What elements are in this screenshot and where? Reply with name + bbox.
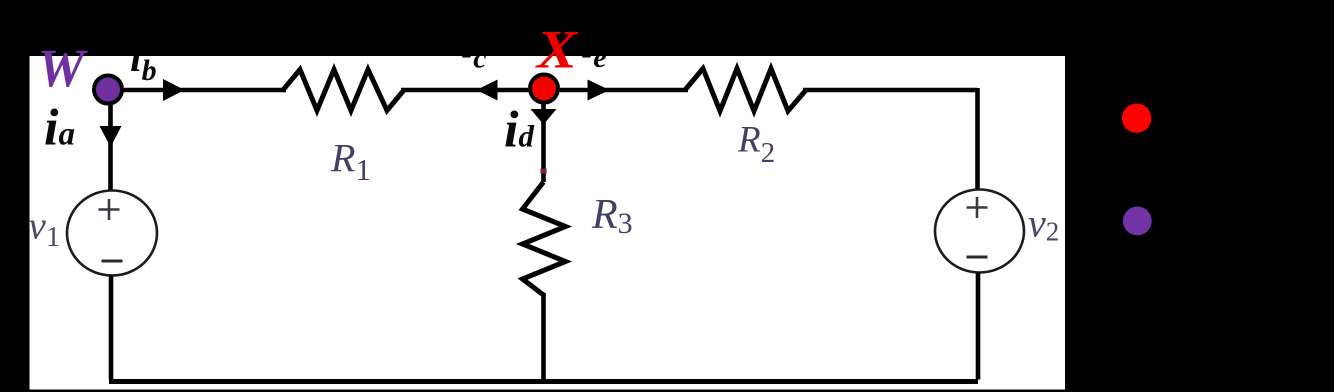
arrow i_c (left) bbox=[477, 80, 498, 101]
wire: v2 bottom to bottom-right corner bbox=[976, 273, 981, 380]
wire: top-right corner down to v2 bbox=[975, 88, 980, 191]
voltage source v2 (circle) bbox=[935, 190, 1024, 273]
legend purple dot bbox=[1123, 207, 1152, 236]
v2 minus sign bbox=[967, 256, 988, 259]
arrow i_e (right) bbox=[588, 80, 610, 101]
circuit panel (white background) bbox=[30, 56, 1066, 390]
svg-text:X: X bbox=[535, 20, 579, 79]
v1 plus sign bbox=[99, 199, 120, 220]
wire: left branch vertical (node W down to v1) bbox=[108, 88, 113, 192]
wire: middle branch from node X down to R3 bbox=[541, 90, 546, 182]
v1 minus sign bbox=[102, 260, 123, 263]
arrow i_d (down) bbox=[531, 109, 557, 125]
arrow i_b (right) bbox=[163, 79, 185, 101]
wire: v1 bottom to bottom-left corner bbox=[109, 276, 114, 380]
resistor R1 (zigzag) bbox=[286, 87, 401, 93]
svg-text:W: W bbox=[38, 38, 88, 99]
resistor R2 (zigzag) bbox=[688, 87, 803, 93]
wire: bottom bus bbox=[109, 379, 978, 384]
solder tick on middle wire bbox=[541, 169, 547, 174]
node X (red dot) bbox=[530, 75, 558, 103]
voltage source v1 (circle) bbox=[67, 191, 157, 276]
top black bar (annotation mask) bbox=[0, 0, 1334, 56]
wire: R3 bottom to bottom bus bbox=[541, 293, 546, 381]
arrow i_a (down) bbox=[100, 126, 122, 147]
v2 plus sign bbox=[967, 197, 988, 218]
legend red dot bbox=[1122, 104, 1151, 133]
node W (purple dot) bbox=[94, 76, 122, 104]
resistor R3 (vertical zigzag) bbox=[523, 182, 566, 295]
wire: top bus from node W to top-right corner bbox=[108, 88, 977, 93]
